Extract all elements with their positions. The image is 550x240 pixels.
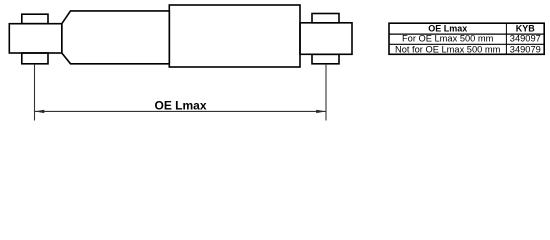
svg-text:For OE Lmax 500 mm: For OE Lmax 500 mm (402, 34, 494, 44)
table outer border (389, 23, 544, 54)
svg-text:349097: 349097 (510, 34, 541, 44)
right eye top tab (312, 14, 339, 23)
outer body tube (169, 5, 300, 67)
dimension line OE Lmax (35, 110, 326, 112)
svg-text:OE Lmax: OE Lmax (428, 24, 467, 34)
table row separator 2 (389, 43, 544, 45)
right extension line (325, 64, 327, 121)
svg-text:Not for OE Lmax 500 mm: Not for OE Lmax 500 mm (395, 44, 501, 54)
table row separator 1 (389, 33, 544, 35)
table column separator (505, 23, 507, 54)
reservoir tube (tapered left section) (62, 11, 170, 64)
svg-text:KYB: KYB (516, 24, 536, 34)
left extension line (34, 65, 36, 121)
svg-text:349079: 349079 (510, 44, 541, 54)
svg-text:OE Lmax: OE Lmax (154, 98, 206, 112)
table grid (389, 23, 544, 54)
left arrowhead (35, 110, 45, 113)
right arrowhead (316, 110, 326, 113)
left mounting eye (9, 24, 62, 53)
left eye bottom tab (22, 53, 48, 64)
right eye bottom tab (312, 54, 339, 64)
left eye top tab (22, 14, 48, 24)
right mounting eye (300, 23, 352, 55)
